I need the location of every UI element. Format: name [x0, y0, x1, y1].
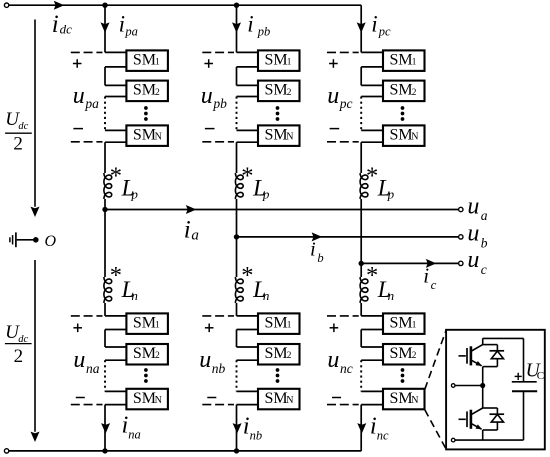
- svg-text:na: na: [128, 427, 141, 441]
- wire detail top rail: [483, 337, 524, 339]
- wire AC tap to Ln b: [236, 237, 238, 277]
- wire SM1-SM2 link upper b: [237, 66, 259, 68]
- wire collector diagonal: [472, 345, 483, 351]
- dashed minus terminal upper b: [202, 141, 234, 143]
- wire collector bridge: [483, 407, 498, 409]
- arrow i_pc: [357, 22, 366, 32]
- svg-text:SM: SM: [265, 52, 288, 69]
- svg-text:pb: pb: [257, 25, 271, 39]
- dashed plus terminal lower c: [327, 315, 359, 317]
- svg-text:2: 2: [287, 351, 292, 361]
- svg-text:u: u: [467, 247, 479, 273]
- inductor Ln phase a: [104, 277, 112, 303]
- svg-text:nc: nc: [377, 429, 389, 443]
- svg-text:na: na: [86, 361, 100, 376]
- svg-text:i: i: [371, 11, 377, 36]
- svg-text:N: N: [286, 132, 293, 143]
- wire SM1 in lower b: [237, 315, 259, 317]
- wire emitter diagonal: [472, 360, 482, 366]
- submodule SM1 lower b: [258, 313, 300, 334]
- wire SM2-SMN dotted link upper a: [105, 96, 126, 98]
- svg-text:dc: dc: [18, 121, 28, 132]
- wire SMN out c: [361, 141, 383, 143]
- ellipsis upper stack c: [401, 106, 405, 110]
- wire SM1-SM2 link lower a: [105, 329, 126, 331]
- emitter arrowhead: [476, 424, 483, 429]
- junction bottom bus phase a: [102, 448, 107, 453]
- terminal u_a: [459, 207, 463, 211]
- dashed plus terminal lower a: [71, 315, 103, 317]
- submodule SM2 upper b: [258, 81, 300, 102]
- wire SM2-SMN dotted link lower a: [105, 359, 126, 361]
- junction AC tap b: [234, 234, 239, 239]
- svg-text:SM: SM: [265, 315, 288, 332]
- svg-text:N: N: [155, 132, 162, 143]
- svg-text:pa: pa: [84, 96, 99, 111]
- svg-text:i: i: [310, 239, 316, 261]
- svg-text:u: u: [199, 347, 211, 373]
- wire SM1 in lower c: [361, 315, 383, 317]
- wire diode cathode lead: [496, 408, 498, 414]
- terminal u_b: [459, 235, 463, 239]
- plus sign upper arm b: [204, 63, 213, 65]
- wire top DC bus: [9, 4, 361, 6]
- wire to bottom bus c: [360, 405, 362, 451]
- arrow i_nc: [357, 423, 366, 433]
- wire collector bridge: [483, 344, 498, 346]
- junction bottom bus phase b: [234, 448, 239, 453]
- svg-text:1: 1: [287, 321, 292, 331]
- plus sign upper arm a: [73, 63, 82, 65]
- svg-text:u: u: [73, 83, 85, 109]
- wire SM1 in b: [237, 51, 259, 53]
- wire SMN out lower c: [361, 404, 383, 406]
- transistor lower IGBT with antiparallel diode: [459, 408, 505, 430]
- dashed plus terminal upper b: [202, 51, 234, 53]
- minus sign lower arm b: [207, 397, 216, 399]
- dashed plus terminal upper a: [71, 51, 103, 53]
- wire top spine c: [360, 5, 362, 52]
- ground reference node O: [15, 232, 17, 247]
- wire collector diagonal: [472, 408, 483, 414]
- zoom fan dashed line lower: [425, 410, 446, 449]
- wire Ln to lower stack c: [360, 303, 362, 316]
- capacitor u_C top lead: [523, 338, 525, 381]
- svg-text:pa: pa: [124, 25, 137, 39]
- wire Ln to lower stack a: [104, 303, 106, 316]
- inductor Lp phase a: [104, 173, 112, 199]
- svg-text:c: c: [481, 262, 487, 277]
- svg-text:u: u: [467, 193, 479, 219]
- submodule SM1 upper a: [126, 50, 167, 71]
- svg-text:1: 1: [412, 58, 417, 68]
- submodule SM1 upper c: [383, 50, 425, 71]
- submodule SMN lower c: [383, 389, 425, 410]
- wire to bottom bus b: [236, 405, 238, 451]
- svg-text:nb: nb: [250, 429, 263, 443]
- svg-text:n: n: [388, 288, 395, 303]
- wire bottom DC bus: [9, 450, 361, 452]
- svg-text:n: n: [131, 288, 138, 303]
- svg-text:SM: SM: [390, 52, 413, 69]
- svg-text:SM: SM: [133, 127, 156, 144]
- zoom fan dashed line upper: [425, 331, 446, 390]
- plus sign lower arm a: [73, 327, 82, 329]
- wire emitter bridge: [483, 429, 498, 431]
- ellipsis upper stack a: [144, 106, 148, 110]
- detail submodule box: [446, 330, 545, 450]
- svg-text:SM: SM: [133, 315, 156, 332]
- minus sign upper arm b: [205, 128, 215, 130]
- svg-text:pb: pb: [212, 96, 227, 111]
- wire SM1-SM2 link lower c: [361, 329, 383, 331]
- svg-text:SM: SM: [390, 390, 413, 407]
- plus sign lower arm b: [205, 327, 214, 329]
- plus sign upper arm c: [329, 63, 338, 65]
- wire SM2-SMN dotted link upper c: [361, 96, 383, 98]
- wire Lp to AC tap b: [236, 199, 238, 237]
- svg-text:1: 1: [412, 321, 417, 331]
- wire SM1-SM2 link upper a: [105, 66, 126, 68]
- wire SM2-SMN dotted link lower b: [237, 359, 259, 361]
- wire SMN out lower a: [105, 404, 126, 406]
- svg-text:2: 2: [155, 88, 160, 98]
- junction AC tap a: [102, 207, 107, 212]
- wire SM1 in a: [105, 51, 126, 53]
- wire AC tap to Ln c: [360, 263, 362, 277]
- svg-text:nc: nc: [340, 361, 353, 376]
- wire SM1-SM2 link lower b: [237, 329, 259, 331]
- dashed minus terminal upper c: [327, 141, 359, 143]
- arrow i_pa: [101, 22, 110, 32]
- node O dot: [33, 237, 39, 243]
- svg-text:O: O: [45, 233, 57, 250]
- svg-text:SM: SM: [390, 345, 413, 362]
- wire SM1-SM2 link upper c: [361, 66, 383, 68]
- svg-text:u: u: [467, 221, 479, 247]
- svg-text:SM: SM: [133, 52, 156, 69]
- inductor Ln phase c: [360, 277, 368, 303]
- svg-text:p: p: [130, 186, 138, 201]
- svg-text:pc: pc: [339, 96, 353, 111]
- minus sign upper arm c: [330, 128, 340, 130]
- submodule SM2 upper a: [126, 81, 167, 102]
- wire top spine a: [104, 5, 106, 52]
- svg-text:p: p: [387, 186, 395, 201]
- submodule SMN upper b: [258, 125, 300, 145]
- emitter arrowhead: [476, 361, 483, 366]
- arrow i_b: [312, 232, 322, 241]
- svg-text:2: 2: [412, 88, 417, 98]
- wire midpoint to lower collector: [482, 386, 484, 409]
- submodule SM2 lower c: [383, 344, 425, 365]
- svg-text:i: i: [52, 11, 59, 38]
- IGBT gate bar: [466, 411, 468, 427]
- junction top bus phase a: [102, 2, 107, 7]
- terminal u_c: [459, 261, 463, 265]
- svg-text:N: N: [411, 395, 418, 406]
- junction top bus phase b: [234, 2, 239, 7]
- submodule SMN lower b: [258, 389, 300, 410]
- svg-text:SM: SM: [390, 315, 413, 332]
- wire to bottom bus a: [104, 405, 106, 451]
- submodule SMN upper c: [383, 125, 425, 145]
- capacitor u_C plates: [512, 381, 537, 383]
- junction AC tap c: [359, 261, 364, 266]
- wire gate lead: [459, 418, 466, 420]
- wire Lp to AC tap c: [360, 199, 362, 263]
- ellipsis lower stack c: [401, 368, 405, 372]
- capacitor u_C bottom lead: [523, 391, 525, 440]
- wire to Lp c: [360, 142, 362, 173]
- submodule SM2 lower b: [258, 344, 300, 365]
- wire top spine b: [236, 5, 238, 52]
- arrow i_pb: [232, 22, 241, 32]
- svg-text:SM: SM: [133, 82, 156, 99]
- svg-text:C: C: [537, 370, 544, 382]
- svg-text:SM: SM: [390, 127, 413, 144]
- ellipsis upper stack b: [276, 106, 280, 110]
- svg-text:*: *: [241, 262, 253, 289]
- svg-text:i: i: [119, 11, 125, 36]
- wire SM2-SMN dotted link lower c: [361, 359, 383, 361]
- dashed minus terminal lower b: [202, 404, 234, 406]
- svg-text:u: u: [73, 347, 85, 373]
- arrow i_na: [101, 423, 110, 433]
- minus sign lower arm c: [332, 397, 341, 399]
- svg-text:b: b: [317, 251, 323, 265]
- wire emitter diagonal: [472, 424, 482, 430]
- inductor Ln phase b: [235, 277, 243, 303]
- junction midpoint: [480, 383, 485, 388]
- svg-text:u: u: [327, 347, 339, 373]
- IGBT collector-emitter bar: [470, 410, 473, 429]
- IGBT collector-emitter bar: [470, 346, 473, 365]
- plus sign capacitor: [515, 375, 522, 377]
- inductor Lp phase b: [235, 173, 243, 199]
- svg-text:*: *: [110, 262, 122, 289]
- svg-text:1: 1: [155, 321, 160, 331]
- wire Ln to lower stack b: [236, 303, 238, 316]
- IGBT gate bar: [466, 348, 468, 364]
- svg-text:2: 2: [13, 133, 23, 154]
- dashed minus terminal lower a: [71, 404, 103, 406]
- svg-text:SM: SM: [265, 127, 288, 144]
- svg-text:i: i: [247, 11, 253, 36]
- wire gate lead: [459, 355, 466, 357]
- svg-text:N: N: [411, 132, 418, 143]
- wire AC output c: [361, 262, 458, 264]
- wire SM2-SMN dotted link upper b: [237, 96, 259, 98]
- svg-text:1: 1: [287, 58, 292, 68]
- terminal DC+: [4, 3, 8, 7]
- submodule SM1 lower c: [383, 313, 425, 334]
- inductor Lp phase c: [360, 173, 368, 199]
- diode cathode bar: [490, 413, 505, 415]
- submodule SM1 upper b: [258, 50, 300, 71]
- svg-text:p: p: [262, 186, 270, 201]
- minus sign upper arm a: [73, 128, 83, 130]
- svg-text:SM: SM: [133, 390, 156, 407]
- diode triangle: [491, 414, 503, 422]
- minus sign lower arm a: [76, 397, 85, 399]
- wire AC output b: [237, 236, 459, 238]
- terminal detail upper: [451, 384, 455, 388]
- svg-text:dc: dc: [60, 21, 73, 36]
- wire to Lp a: [104, 142, 106, 173]
- wire AC output a: [105, 209, 459, 211]
- svg-text:2: 2: [14, 346, 24, 367]
- submodule SMN lower a: [126, 389, 167, 410]
- diode cathode bar: [490, 350, 505, 352]
- wire SMN out lower b: [237, 404, 259, 406]
- svg-text:c: c: [431, 277, 437, 292]
- svg-text:n: n: [263, 288, 270, 303]
- wire SMN out a: [105, 141, 126, 143]
- arrow i_a: [186, 205, 196, 214]
- svg-text:SM: SM: [133, 345, 156, 362]
- svg-text:SM: SM: [265, 390, 288, 407]
- voltage arrow lower Udc/2: [34, 260, 36, 432]
- submodule SM2 upper c: [383, 81, 425, 102]
- wire lower emitter: [482, 430, 484, 440]
- svg-text:SM: SM: [390, 82, 413, 99]
- wire diode anode lead: [496, 422, 498, 430]
- wire Lp to AC tap a: [104, 199, 106, 210]
- wire diode anode lead: [496, 359, 498, 367]
- svg-text:2: 2: [287, 88, 292, 98]
- svg-text:2: 2: [412, 351, 417, 361]
- wire to Lp b: [236, 142, 238, 173]
- wire SMN out b: [237, 141, 259, 143]
- wire midpoint to terminal: [455, 385, 483, 387]
- dashed minus terminal upper a: [71, 141, 103, 143]
- wire AC tap to Ln a: [104, 210, 106, 278]
- submodule SM1 lower a: [126, 313, 167, 334]
- arrow i_dc: [54, 1, 64, 10]
- submodule SM2 lower a: [126, 344, 167, 365]
- svg-text:i: i: [423, 264, 429, 288]
- submodule SMN upper a: [126, 125, 167, 145]
- plus sign lower arm c: [330, 327, 339, 329]
- dashed plus terminal lower b: [202, 315, 234, 317]
- ellipsis lower stack a: [144, 368, 148, 372]
- diode triangle: [491, 351, 503, 359]
- wire upper emitter to midpoint: [482, 367, 484, 386]
- transistor upper IGBT with antiparallel diode: [459, 345, 505, 367]
- svg-text:1: 1: [155, 58, 160, 68]
- ellipsis lower stack b: [276, 368, 280, 372]
- wire diode cathode lead: [496, 345, 498, 351]
- arrow i_c: [426, 259, 436, 268]
- svg-text:a: a: [481, 208, 488, 223]
- wire emitter bridge: [483, 366, 498, 368]
- wire detail bottom rail: [455, 439, 524, 441]
- svg-text:a: a: [191, 228, 199, 244]
- svg-text:nb: nb: [212, 361, 226, 376]
- wire SM1 in c: [361, 51, 383, 53]
- svg-text:N: N: [155, 395, 162, 406]
- terminal DC-: [4, 449, 8, 453]
- svg-text:2: 2: [155, 351, 160, 361]
- terminal detail lower: [451, 438, 455, 442]
- dashed minus terminal lower c: [327, 404, 359, 406]
- svg-text:N: N: [286, 395, 293, 406]
- svg-text:pc: pc: [378, 25, 391, 39]
- svg-text:*: *: [366, 262, 378, 289]
- svg-text:u: u: [327, 83, 339, 109]
- svg-text:SM: SM: [265, 82, 288, 99]
- svg-text:b: b: [481, 235, 488, 250]
- wire upper collector: [482, 338, 484, 344]
- arrow i_nb: [233, 423, 242, 433]
- wire SM1 in lower a: [105, 315, 126, 317]
- svg-text:SM: SM: [265, 345, 288, 362]
- voltage arrow upper Udc/2: [34, 20, 36, 207]
- svg-text:i: i: [184, 216, 191, 243]
- dashed plus terminal upper c: [327, 51, 359, 53]
- svg-text:u: u: [201, 83, 213, 109]
